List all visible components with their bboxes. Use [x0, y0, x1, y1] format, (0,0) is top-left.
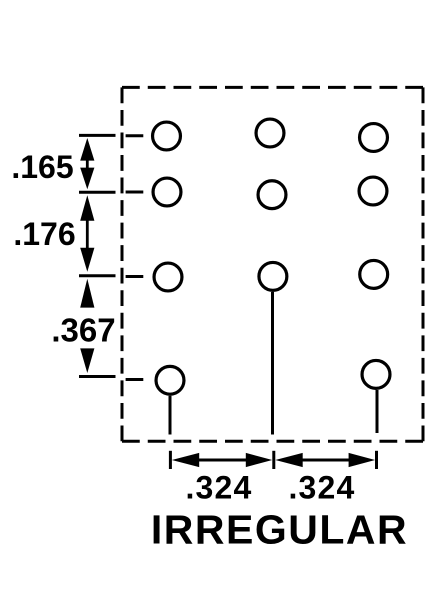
hole row3 col3	[360, 260, 388, 288]
svg-text:.367: .367	[51, 311, 115, 348]
hole row2 col2	[258, 181, 286, 209]
hole row2 col1	[153, 178, 181, 206]
hole row4 col3	[362, 360, 390, 388]
hole row1 col3	[360, 124, 388, 152]
hole row3 col2	[259, 262, 287, 290]
hole row2 col3	[359, 177, 387, 205]
centerline tick row 4	[79, 377, 143, 380]
svg-text:.324: .324	[288, 470, 355, 506]
svg-text:.165: .165	[11, 149, 73, 185]
pin stem col3	[376, 390, 379, 433]
centerline tick row 3	[79, 274, 143, 278]
dimension .165 vertical arrows	[80, 138, 94, 189]
dimension .324 left horizontal arrows	[172, 453, 272, 467]
svg-text:.176: .176	[13, 216, 75, 252]
component outline dashed left edge	[121, 87, 124, 441]
svg-text:IRREGULAR: IRREGULAR	[151, 507, 408, 553]
hole row3 col1	[154, 263, 182, 291]
component outline dashed bottom edge	[122, 440, 423, 443]
centerline tick row 2	[79, 191, 143, 194]
hole row4 col1	[156, 366, 184, 394]
dimension .176 vertical arrows	[80, 195, 94, 271]
extension tick bottom left	[169, 451, 172, 469]
centerline tick row 1	[79, 134, 143, 137]
dimension .367 vertical arrows	[80, 279, 94, 373]
svg-text:.324: .324	[185, 470, 252, 506]
dimension .324 right horizontal arrows	[275, 453, 375, 467]
component outline dashed top edge	[122, 86, 423, 89]
hole row1 col1	[153, 122, 181, 150]
hole row1 col2	[256, 119, 284, 147]
component outline dashed right edge	[422, 87, 425, 441]
extension tick bottom middle	[272, 451, 275, 469]
pin stem col2	[271, 292, 274, 435]
extension tick bottom right	[375, 451, 378, 469]
pin stem col1	[169, 396, 172, 435]
